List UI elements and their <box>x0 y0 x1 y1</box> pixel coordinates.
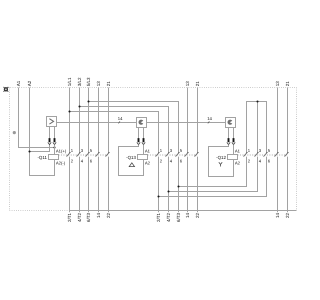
coil -Q13 <box>138 155 148 160</box>
coil -Q12 <box>228 155 238 160</box>
svg-text:21: 21 <box>285 81 290 87</box>
wire A1 feed rail <box>19 88 55 148</box>
svg-text:13: 13 <box>96 81 101 87</box>
svg-text:21: 21 <box>195 81 200 87</box>
svg-text:4: 4 <box>259 158 262 163</box>
wire 14 module link right <box>147 122 226 124</box>
junction A2 <box>28 150 30 152</box>
svg-text:A1: A1 <box>16 80 21 86</box>
wire A2 loop -Q13 <box>119 145 144 176</box>
svg-text:2: 2 <box>71 158 74 163</box>
svg-text:A2: A2 <box>27 80 32 86</box>
svg-text:3: 3 <box>81 148 84 153</box>
svg-text:1: 1 <box>71 148 74 153</box>
junction A1 <box>53 146 55 148</box>
svg-text:5: 5 <box>268 148 271 153</box>
contact 13-13 of -Q11 <box>96 153 99 156</box>
svg-text:22: 22 <box>195 213 200 219</box>
svg-text:14: 14 <box>118 116 123 121</box>
wire A2 to -Q11 suppressor pin <box>30 145 50 152</box>
coil -Q11 <box>49 155 59 160</box>
wire 13 rail -Q12 bottom <box>277 157 279 213</box>
enclosure dotted boundary bottom-left <box>10 210 70 212</box>
svg-text:6/T3: 6/T3 <box>176 213 181 223</box>
svg-text:4: 4 <box>170 158 173 163</box>
svg-text:6: 6 <box>90 158 93 163</box>
contact 5-5 of -Q11 <box>86 153 89 156</box>
wire L2 branch to -Q13 contact 3 <box>80 107 169 154</box>
svg-text:A1: A1 <box>145 148 151 153</box>
wire 21 rail -Q12 top <box>287 88 289 154</box>
svg-text:6: 6 <box>180 158 183 163</box>
contact 3-3 of -Q13 <box>166 153 169 156</box>
svg-text:14: 14 <box>96 213 101 219</box>
wire 13 rail -Q13 bottom <box>187 157 189 213</box>
svg-text:-Q12: -Q12 <box>216 155 226 160</box>
contact 5-5 of -Q13 <box>176 153 179 156</box>
wire 3/L2 rail -Q11 top <box>79 88 81 154</box>
symbol delta -Q13 <box>129 163 134 167</box>
wire A1 riser -Q13 <box>143 145 145 155</box>
svg-text:3/L2: 3/L2 <box>77 77 82 86</box>
wire delta link -Q13.6 to -Q12.6 <box>159 157 267 197</box>
plug pins of module on -Q12 <box>228 128 230 139</box>
svg-text:22: 22 <box>106 213 111 219</box>
svg-text:2: 2 <box>248 158 251 163</box>
svg-text:A1(+): A1(+) <box>56 148 67 153</box>
wire star bridge centre leg <box>257 102 259 154</box>
mechanical linkage -Q12 <box>238 154 288 156</box>
svg-text:14: 14 <box>207 116 212 121</box>
function module on -Q13 <box>137 118 147 128</box>
wire T3 rail -Q13 bottom <box>178 157 180 213</box>
wire 13 rail -Q13 top <box>187 88 189 154</box>
junction L3 branch <box>87 100 89 102</box>
contact 13-13 of -Q13 <box>185 153 188 156</box>
svg-text:-Q13: -Q13 <box>126 155 136 160</box>
svg-text:4/T2: 4/T2 <box>166 213 171 223</box>
svg-text:6/T3: 6/T3 <box>86 213 91 223</box>
svg-text:1: 1 <box>248 148 251 153</box>
wire delta link -Q13.4 to -Q12.4 <box>169 157 258 192</box>
svg-text:22: 22 <box>285 213 290 219</box>
svg-text:2: 2 <box>160 158 163 163</box>
terminal bus line bottom <box>69 210 297 212</box>
enclosure dotted boundary right <box>296 88 298 211</box>
contact 21-21 of -Q13 <box>195 153 198 156</box>
junction delta link 2 <box>167 190 169 192</box>
wire A1 riser -Q12 <box>233 145 235 155</box>
wire A2 loop -Q12 <box>209 145 234 177</box>
junction L2 branch <box>78 105 80 107</box>
contact 21-21 of -Q12 <box>285 153 288 156</box>
wire 21 rail -Q13 top <box>197 88 199 154</box>
junction star point <box>256 100 258 102</box>
junction delta link 1 <box>177 185 179 187</box>
svg-text:14: 14 <box>185 213 190 219</box>
svg-text:1/L1: 1/L1 <box>67 77 72 86</box>
wire 21 rail -Q12 bottom <box>287 157 289 213</box>
contact 21-21 of -Q11 <box>106 153 109 156</box>
PE terminal symbol <box>4 87 9 92</box>
function module on -Q11 <box>47 117 57 127</box>
svg-text:A1: A1 <box>235 148 241 153</box>
wire L1 branch to -Q13 contact 1 <box>70 112 159 154</box>
wire 5/L3 rail -Q11 top <box>88 88 90 154</box>
contact 1-1 of -Q11 <box>67 153 70 156</box>
symbol star -Q12 <box>219 162 222 166</box>
svg-text:A2(-): A2(-) <box>56 160 66 165</box>
svg-text:4: 4 <box>81 158 84 163</box>
svg-text:13: 13 <box>275 81 280 87</box>
svg-text:6: 6 <box>268 158 271 163</box>
contact 1-1 of -Q12 <box>244 153 247 156</box>
svg-text:2/T1: 2/T1 <box>156 213 161 223</box>
wire 21 rail -Q13 bottom <box>197 157 199 213</box>
svg-text:5: 5 <box>180 148 183 153</box>
svg-text:5: 5 <box>90 148 93 153</box>
wire T2 rail -Q13 bottom <box>168 157 170 213</box>
enclosure dotted boundary left <box>9 88 11 211</box>
plug pins of module on -Q13 <box>138 128 140 139</box>
wire 21 rail -Q11 top <box>108 88 110 154</box>
wire T1 rail -Q13 bottom <box>158 157 160 213</box>
contact 3-3 of -Q12 <box>255 153 258 156</box>
contact 13-13 of -Q12 <box>275 153 278 156</box>
svg-text:A2: A2 <box>235 160 241 165</box>
svg-text:14: 14 <box>275 213 280 219</box>
wire A2 loop to -Q11 coil <box>30 152 55 176</box>
wire 13 rail -Q11 top <box>98 88 100 154</box>
svg-text:3: 3 <box>170 148 173 153</box>
svg-text:5/L3: 5/L3 <box>86 77 91 86</box>
svg-text:-Q11: -Q11 <box>37 155 47 160</box>
wire 3/L2 rail -Q11 bottom <box>79 157 81 213</box>
svg-text:A2: A2 <box>145 160 151 165</box>
wire star bridge -Q12 <box>247 102 267 154</box>
plug pins of module on -Q11 <box>49 127 51 139</box>
junction L1 branch <box>68 110 70 112</box>
junction delta link 3 <box>157 195 159 197</box>
svg-text:3: 3 <box>259 148 262 153</box>
wire 13 rail -Q12 top <box>277 88 279 154</box>
svg-text:21: 21 <box>106 81 111 87</box>
svg-text:13: 13 <box>185 81 190 87</box>
wire 1/L1 rail -Q11 bottom <box>69 157 71 213</box>
svg-text:4/T2: 4/T2 <box>77 213 82 223</box>
mechanical linkage -Q11 <box>59 154 109 156</box>
wire 1/L1 rail -Q11 top <box>69 88 71 154</box>
marker on left boundary <box>13 131 16 134</box>
function module on -Q12 <box>226 118 236 128</box>
svg-text:2/T1: 2/T1 <box>67 213 72 223</box>
wire A2 feed rail <box>29 88 31 152</box>
svg-text:1: 1 <box>160 148 163 153</box>
mechanical linkage -Q13 <box>148 154 198 156</box>
contact 3-3 of -Q11 <box>77 153 80 156</box>
wire 13 rail -Q11 bottom <box>98 157 100 213</box>
wire L3 branch to -Q13 contact 5 <box>89 102 179 154</box>
contact 1-1 of -Q13 <box>156 153 159 156</box>
wire 14 module link left <box>57 122 137 124</box>
wire 21 rail -Q11 bottom <box>108 157 110 213</box>
wire delta link -Q13.2 to -Q12.2 <box>179 157 247 187</box>
wire 5/L3 rail -Q11 bottom <box>88 157 90 213</box>
enclosure dotted boundary top <box>8 87 296 89</box>
wire A1 riser -Q11 <box>54 145 56 155</box>
contact 5-5 of -Q12 <box>264 153 267 156</box>
